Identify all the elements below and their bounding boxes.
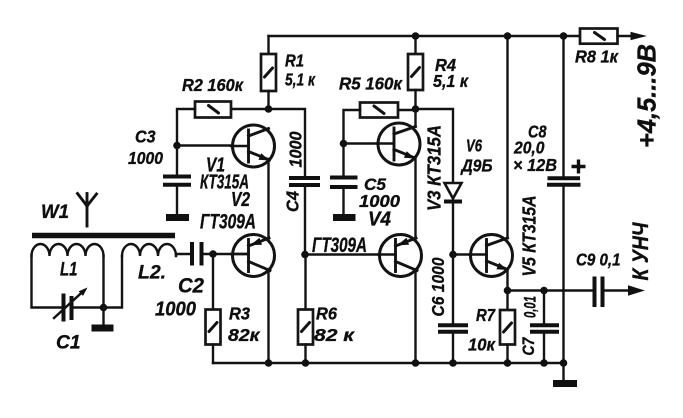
svg-text:V4: V4 (368, 208, 392, 231)
wire top supply rail (269, 35, 581, 37)
svg-text:R3: R3 (229, 304, 250, 324)
node V5 emitter/R7/output junction (504, 287, 512, 295)
output arrow to AF amplifier (628, 285, 645, 295)
wire C5 to ground (342, 189, 344, 215)
svg-text:С3: С3 (135, 127, 156, 147)
capacitor C8 electrolytic (547, 178, 581, 185)
wire R3 to bottom rail (212, 345, 214, 364)
wire R2 right to node (231, 108, 269, 110)
svg-text:R1: R1 (285, 51, 304, 71)
svg-text:С2: С2 (178, 275, 204, 298)
wire R1 bottom to node (267, 91, 269, 109)
svg-text:С6 1000: С6 1000 (428, 257, 448, 316)
node V1 base junction (173, 142, 181, 150)
wire node down to R7 (506, 291, 508, 311)
node L1/ground junction (100, 304, 108, 312)
svg-text:С9 0,1: С9 0,1 (576, 250, 621, 270)
svg-text:82 к: 82 к (314, 325, 355, 345)
capacitor C9 (595, 277, 603, 308)
node V6/C6/V5 base junction (449, 251, 457, 259)
svg-text:С4: С4 (283, 191, 303, 212)
wire C4 to V4 base node (304, 187, 306, 255)
capacitor C6 (438, 325, 468, 332)
wire junction down to R3 (212, 254, 214, 310)
wire C2 to V2 base (204, 253, 249, 255)
transistor V5 (470, 235, 513, 277)
node C6 on rail (449, 359, 457, 367)
svg-text:L1: L1 (60, 259, 78, 281)
ground bar under C3 (166, 214, 189, 221)
wire R8 to supply arrow (618, 35, 633, 37)
wire C7 to bottom rail (543, 334, 545, 363)
wire bottom rail (213, 362, 564, 364)
node R4/V3 collector junction (412, 105, 420, 113)
diode V6 (444, 183, 462, 202)
wire V3 base (344, 142, 395, 144)
wire R2 left down to base node (177, 109, 195, 146)
node R7 on rail (504, 359, 512, 367)
ferrite rod (32, 233, 175, 239)
svg-text:С7: С7 (519, 336, 538, 355)
svg-text:L2.: L2. (138, 262, 166, 284)
capacitor C5 (330, 178, 358, 188)
resistor R2 (195, 102, 231, 118)
node C7 junction (540, 287, 548, 295)
transistor V3 (377, 123, 420, 165)
wire R7 to bottom rail (506, 345, 508, 364)
node V2 collector on rail (265, 359, 273, 367)
plus sign of C8 (572, 160, 586, 174)
wire V3 emitter to V4 emitter (414, 157, 416, 239)
wire R4 top (414, 36, 416, 54)
transistor V1 (231, 125, 275, 167)
svg-text:1000: 1000 (155, 299, 196, 321)
wire C8 to ground (crosses output line, no junction) (562, 187, 564, 363)
wire V4 collector to bottom rail (414, 271, 416, 364)
wire C8 top (562, 36, 564, 177)
wire node to diode branch (416, 109, 454, 182)
svg-text:ГТ309А: ГТ309А (200, 211, 256, 234)
ground bar under C5 (333, 214, 356, 221)
wire V1 emitter to V2 emitter (267, 159, 269, 239)
wire V3 collector up (414, 109, 416, 127)
svg-text:R8 1к: R8 1к (575, 47, 619, 67)
node R6 on rail (302, 359, 310, 367)
svg-text:1000: 1000 (286, 131, 306, 167)
wire V4 base (305, 253, 396, 255)
wire base node down to C5 (342, 144, 344, 177)
wire V2 collector to bottom rail (267, 271, 269, 364)
wire R1 top (267, 36, 269, 54)
svg-text:V6: V6 (466, 136, 482, 156)
node rail end (560, 359, 568, 367)
svg-text:0,01: 0,01 (521, 296, 540, 318)
node V3 base junction (340, 140, 348, 148)
svg-text:× 12В: × 12В (513, 155, 557, 175)
svg-text:R6: R6 (316, 304, 337, 324)
capacitor C4 (289, 178, 320, 185)
antenna W1 (78, 194, 97, 227)
node V5 collector on rail (504, 32, 512, 40)
capacitor C7 (530, 325, 559, 332)
wire diode cathode to V5 base node (452, 204, 454, 255)
wire base node down to C3 (176, 146, 178, 177)
svg-text:V5 КТ315А: V5 КТ315А (519, 196, 540, 277)
wire V5 emitter down (506, 270, 508, 291)
svg-text:С1: С1 (56, 333, 81, 354)
ground bar under L1 (92, 325, 114, 332)
svg-text:К УНЧ: К УНЧ (628, 222, 653, 280)
svg-text:+4,5...9В: +4,5...9В (634, 44, 662, 148)
wire output line (508, 289, 593, 291)
transistor V2 (231, 235, 275, 277)
wire R5 right to node (398, 109, 416, 111)
svg-text:1000: 1000 (128, 148, 163, 168)
svg-text:V3 КТ315А: V3 КТ315А (424, 125, 445, 211)
wire L2 to C2 (176, 254, 190, 256)
resistor R7 (500, 310, 515, 345)
resistor R1 (261, 54, 276, 91)
wire rail end to ground (562, 363, 564, 380)
capacitor C3 (163, 177, 191, 185)
svg-text:V2: V2 (231, 188, 250, 211)
coil L2 (122, 244, 176, 256)
node C8 top on rail (560, 32, 568, 40)
resistor R4 (408, 54, 423, 90)
wire V5 collector to supply rail (506, 36, 508, 238)
ground bar main (553, 380, 577, 387)
svg-text:ГТ309А: ГТ309А (312, 234, 367, 257)
supply arrow +4,5...9V (631, 32, 648, 40)
variable capacitor C1 (54, 288, 88, 322)
node C4/R6/V4 base junction (301, 251, 309, 259)
svg-text:5,1 к: 5,1 к (433, 71, 469, 91)
wire C9 to output arrow (605, 289, 630, 291)
svg-text:82к: 82к (228, 325, 261, 345)
node R4 top on rail (412, 32, 420, 40)
node R1/V1 collector junction (265, 105, 273, 113)
svg-text:10к: 10к (468, 335, 496, 355)
wire node to C4 branch (269, 109, 306, 176)
wire C3 to ground (176, 187, 178, 215)
svg-text:Д9Б: Д9Б (460, 156, 493, 176)
svg-text:R5 160к: R5 160к (339, 74, 403, 94)
wire junction to ground (102, 308, 104, 326)
wire C1 to junction (74, 256, 122, 308)
node C7 on rail (540, 359, 548, 367)
wire C6 to bottom rail (452, 334, 454, 363)
resistor R5 (360, 103, 398, 118)
transistor V4 (379, 235, 422, 277)
coil L1 (32, 244, 104, 256)
wire L1 left leg (32, 255, 62, 308)
node C2/R3/V2 base junction (209, 250, 217, 258)
node V4 collector on rail (412, 359, 420, 367)
svg-text:R2 160к: R2 160к (182, 75, 244, 95)
resistor R6 (298, 310, 313, 345)
svg-text:W1: W1 (41, 201, 69, 223)
wire V1 base (177, 144, 249, 146)
svg-text:R7: R7 (476, 305, 496, 325)
wire R6 to bottom rail (304, 345, 306, 364)
resistor R8 (580, 29, 618, 44)
wire L1 right leg (102, 256, 104, 308)
wire V5 base (453, 253, 487, 255)
resistor R3 (206, 310, 221, 345)
wire R5 left down to base node (344, 110, 361, 144)
svg-text:5,1 к: 5,1 к (285, 70, 316, 90)
wire node down to C7 (543, 291, 545, 324)
wire node down to R6 (304, 255, 306, 310)
wire R4 bottom to node (414, 90, 416, 109)
capacitor C2 (192, 242, 202, 266)
wire node down to C6 (452, 255, 454, 324)
